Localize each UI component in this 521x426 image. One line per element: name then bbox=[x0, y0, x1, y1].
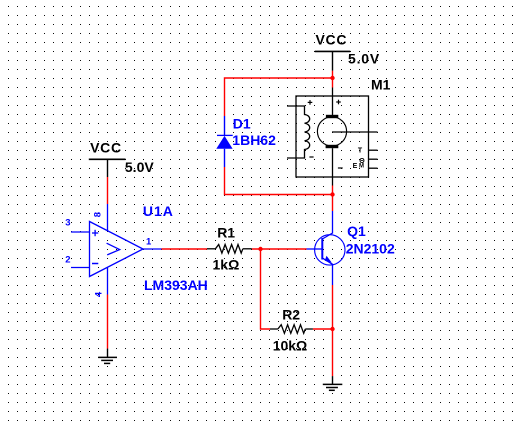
svg-text:5.0V: 5.0V bbox=[348, 51, 380, 67]
svg-text:1BH62: 1BH62 bbox=[232, 132, 276, 148]
svg-text:8: 8 bbox=[93, 212, 104, 217]
svg-text:R1: R1 bbox=[217, 225, 235, 241]
svg-text:VCC: VCC bbox=[316, 31, 348, 47]
svg-text:T: T bbox=[358, 147, 363, 154]
svg-text:E: E bbox=[353, 163, 358, 170]
svg-text:5.0V: 5.0V bbox=[125, 159, 154, 175]
svg-text:U1A: U1A bbox=[143, 203, 174, 219]
svg-text:LM393AH: LM393AH bbox=[144, 277, 208, 293]
svg-text:R2: R2 bbox=[282, 307, 300, 323]
svg-text:3: 3 bbox=[65, 218, 70, 229]
svg-text:2N2102: 2N2102 bbox=[346, 241, 395, 257]
svg-text:M1: M1 bbox=[371, 76, 391, 92]
svg-text:1: 1 bbox=[146, 237, 152, 248]
svg-text:4: 4 bbox=[94, 291, 105, 297]
svg-text:2: 2 bbox=[65, 254, 70, 265]
svg-text:M: M bbox=[359, 164, 364, 170]
svg-text:1kΩ: 1kΩ bbox=[213, 257, 240, 273]
svg-text:10kΩ: 10kΩ bbox=[273, 338, 308, 354]
svg-text:VCC: VCC bbox=[90, 140, 122, 156]
svg-text:Q1: Q1 bbox=[347, 223, 366, 239]
svg-text:D1: D1 bbox=[233, 116, 251, 132]
